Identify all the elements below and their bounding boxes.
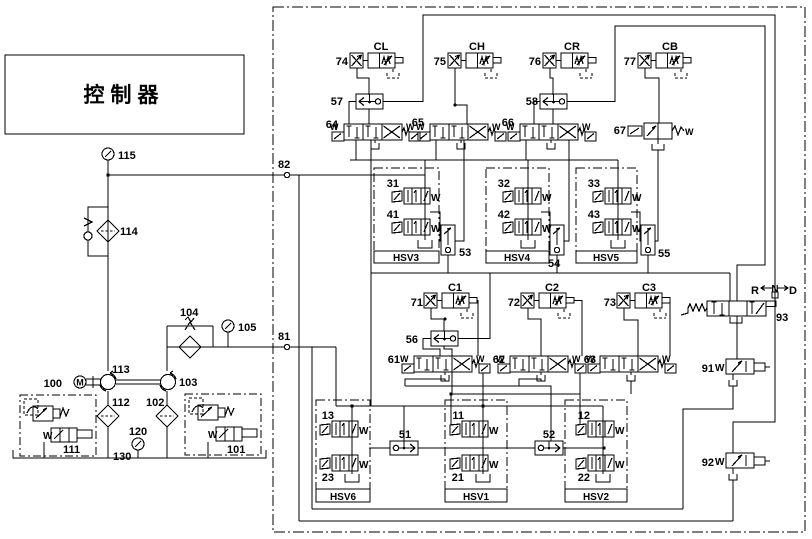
solenoid pilot valve 75, coil CH: [434, 41, 501, 78]
drop valve66 to check 54: [564, 140, 569, 241]
svg-text:31: 31: [387, 178, 399, 190]
riser valve61 cell3 to rail394: [451, 372, 453, 394]
svg-text:D: D: [789, 285, 797, 297]
svg-text:控制器: 控制器: [84, 83, 165, 107]
solenoid valve 13: [320, 410, 369, 437]
node 81: [278, 331, 290, 350]
svg-text:71: 71: [411, 297, 423, 309]
HSV2 internal wire and tank: [596, 406, 610, 482]
svg-text:63: 63: [584, 354, 596, 366]
pump 103: [160, 371, 197, 391]
rail y=386: [405, 386, 551, 441]
R-N-D selector labels: [751, 284, 797, 301]
shaft motor-pump: [86, 376, 101, 388]
svg-text:54: 54: [548, 258, 561, 270]
pilot return riser x=312: [311, 347, 313, 509]
svg-text:11: 11: [452, 410, 464, 422]
svg-text:103: 103: [179, 377, 197, 389]
svg-text:52: 52: [543, 429, 555, 441]
wire 71 output to valve 61: [477, 301, 478, 357]
gauge 105: [222, 320, 256, 347]
wire 93 to valve 91: [736, 316, 738, 359]
directional valve 62: [493, 354, 586, 381]
svg-text:104: 104: [180, 307, 199, 319]
svg-text:32: 32: [498, 178, 510, 190]
solenoid valve 21: [450, 455, 499, 484]
filter 112: [97, 397, 130, 427]
solenoid valve 31: [387, 178, 441, 204]
wire pump103 output up: [166, 347, 168, 371]
svg-text:12: 12: [578, 410, 590, 422]
wire pump103 to filter102 to tank: [166, 391, 168, 458]
svg-text:91: 91: [702, 363, 714, 375]
solenoid valve 32: [498, 178, 552, 204]
motor 100: [44, 376, 86, 390]
svg-text:120: 120: [129, 426, 147, 438]
pilot return rail y=509: [312, 508, 683, 510]
check valve 55: [641, 225, 670, 260]
svg-text:HSV1: HSV1: [463, 492, 490, 503]
solenoid pilot valve 76, coil CR: [529, 41, 596, 78]
svg-text:65: 65: [412, 117, 424, 129]
controller box 控制器: [5, 55, 244, 134]
HSV5 box: [576, 168, 637, 264]
drop rail394 to valve 11: [450, 394, 452, 425]
wire 73 output to valve 63: [669, 301, 671, 357]
directional valve 66: [502, 117, 596, 149]
check valve 54: [548, 225, 564, 270]
risers valve64/65/66 to rail160: [356, 140, 526, 160]
svg-text:HSV3: HSV3: [393, 253, 420, 264]
gauge 115: [102, 148, 136, 162]
svg-text:53: 53: [459, 247, 471, 259]
shuttle valve 58: [526, 94, 567, 109]
wire 58 output rail to valve 93: [567, 26, 765, 301]
tank risers 61 62 63: [405, 379, 631, 394]
svg-text:115: 115: [118, 150, 136, 162]
pilot collector rail y=273: [371, 272, 730, 274]
wire: gauge 115 down to pump 113: [107, 160, 109, 371]
svg-text:67: 67: [614, 125, 626, 137]
solenoid valve 43: [588, 209, 642, 235]
wire 76 pilot to shuttle 58: [550, 68, 553, 95]
solenoid valve 41: [387, 209, 441, 235]
svg-text:CL: CL: [374, 41, 389, 53]
wire check53 bottom to rail272: [447, 255, 449, 273]
svg-text:R: R: [751, 285, 759, 297]
drop rail394 to valve 12: [579, 394, 581, 425]
solenoid valve 42: [498, 209, 552, 235]
shuttle valve 57: [331, 94, 383, 109]
wire shuttle 51 to shuttle 52: [418, 447, 535, 449]
wire 92 bottom to tank rail: [732, 480, 734, 521]
A/B rail under valves y=160: [350, 159, 618, 161]
svg-text:CB: CB: [662, 41, 678, 53]
valve 93: [681, 301, 788, 324]
rail y=394: [451, 393, 580, 395]
outer system boundary (dash-dot): [273, 7, 805, 532]
long drop valve64 to rail406: [370, 140, 372, 406]
shaft pump113-pump103: [116, 380, 160, 384]
svg-text:114: 114: [120, 226, 139, 238]
solenoid valve 23: [320, 455, 369, 484]
svg-text:62: 62: [493, 354, 505, 366]
svg-text:22: 22: [578, 472, 590, 484]
svg-text:HSV4: HSV4: [504, 253, 531, 264]
svg-text:41: 41: [387, 209, 399, 221]
svg-text:C3: C3: [642, 282, 656, 294]
wire 56 left port to valve 61: [423, 339, 440, 357]
svg-text:23: 23: [322, 472, 334, 484]
wire check55 bottom through rail272 to valve73: [647, 255, 649, 273]
wire 91 to return rail: [683, 386, 733, 509]
wire valve 67 to check 55: [655, 150, 658, 241]
solenoid pilot valve 74, coil CL: [336, 41, 403, 78]
valve 92: [702, 453, 770, 480]
svg-text:112: 112: [112, 397, 130, 409]
HSV3 internal supply wire and tank: [418, 175, 432, 248]
wire: P-rail y=175 from pump line to HSV3: [108, 174, 425, 176]
solenoid pilot valve 73, coil C3: [604, 282, 670, 318]
svg-text:74: 74: [336, 56, 349, 68]
svg-text:HSV2: HSV2: [583, 492, 610, 503]
valve 91: [702, 359, 770, 386]
wire 57 left leg to valve 64: [349, 102, 356, 125]
HSV2 box: [565, 400, 627, 503]
svg-text:43: 43: [588, 209, 600, 221]
wire 56 output up to rail272: [458, 273, 490, 339]
directional valve 61: [388, 354, 490, 381]
drop rail408 to shuttle 51: [403, 406, 405, 441]
shuttle valve 56: [406, 331, 458, 346]
shuttle valve 52: [535, 429, 563, 455]
HSV3 box: [374, 168, 439, 264]
svg-text:113: 113: [112, 364, 130, 376]
bypass check valve 104: [167, 307, 213, 347]
solenoid valve 11: [450, 410, 499, 437]
supply riser x=336 to rail408: [335, 347, 337, 406]
svg-text:21: 21: [452, 472, 464, 484]
filter 104-line diamond: [179, 336, 201, 358]
relief outputs to tank: [44, 442, 208, 458]
HSV1 box: [445, 400, 507, 503]
svg-text:66: 66: [502, 117, 514, 129]
svg-text:C1: C1: [448, 282, 462, 294]
wire check54 bottom to rail272: [556, 255, 558, 273]
left return riser x=299: [298, 175, 300, 521]
wire 57 bottom to valve 64: [368, 109, 370, 124]
wire 77 pilot to valve 67: [645, 68, 659, 123]
svg-text:75: 75: [434, 56, 446, 68]
svg-text:33: 33: [588, 178, 600, 190]
svg-text:92: 92: [702, 457, 714, 469]
HSV6 box: [316, 400, 370, 503]
drop rail273 into valve 93: [729, 273, 731, 301]
filter 102: [146, 397, 178, 427]
wire 72 output to valve 62: [574, 301, 582, 357]
directional valve 64: [326, 119, 420, 149]
pilot rail y=347: [167, 346, 336, 348]
drop valve65 to check 53: [455, 140, 464, 241]
svg-text:55: 55: [658, 248, 670, 260]
wire pump113 to filter112 to tank: [107, 391, 109, 458]
wire 56 bottom port to valve 61: [444, 346, 452, 356]
HSV4 box: [486, 168, 549, 264]
svg-text:CH: CH: [469, 41, 485, 53]
wire 71 pilot to shuttle 56: [431, 308, 444, 331]
wire 58 left leg to valve 66: [534, 102, 540, 125]
solenoid pilot valve 72, coil C2: [508, 282, 574, 318]
HSV5 internal supply wire and tank: [611, 188, 625, 248]
solenoid pilot valve 77, coil CB: [624, 41, 691, 78]
solenoid valve 22: [576, 455, 625, 484]
svg-text:57: 57: [331, 96, 343, 108]
svg-text:81: 81: [278, 331, 290, 343]
valve 67: [614, 123, 694, 150]
wire 74 pilot to shuttle 57: [357, 68, 369, 95]
svg-text:64: 64: [326, 119, 339, 131]
wire 72 pilot to valve 62: [528, 308, 541, 356]
wire HSV6 to shuttle 51: [369, 447, 390, 449]
shuttle valve 51: [390, 429, 418, 455]
wire 73 pilot to valve 63: [624, 308, 638, 356]
svg-text:C2: C2: [545, 282, 559, 294]
relief valve 101: [185, 394, 261, 456]
supply rail y=408: [336, 405, 603, 407]
svg-text:56: 56: [406, 334, 418, 346]
node 82: [278, 159, 290, 178]
accumulator filter 114: [97, 220, 139, 242]
bypass loop with check valve at 114: [84, 207, 108, 256]
svg-text:102: 102: [146, 397, 164, 409]
solenoid pilot valve 71, coil C1: [411, 282, 477, 318]
solenoid valve 33: [588, 178, 642, 204]
svg-text:51: 51: [399, 429, 411, 441]
svg-text:76: 76: [529, 56, 541, 68]
wire check55 top to valve43: [631, 212, 641, 241]
svg-text:82: 82: [278, 159, 290, 171]
svg-text:42: 42: [498, 209, 510, 221]
svg-text:CR: CR: [564, 41, 580, 53]
svg-text:W: W: [685, 127, 694, 137]
svg-text:130: 130: [113, 451, 131, 463]
pump 113: [100, 364, 130, 391]
svg-text:93: 93: [776, 312, 788, 324]
HSV6 internal wire and tank: [345, 406, 359, 482]
tank: [13, 450, 266, 458]
check valve 53: [441, 225, 471, 259]
svg-text:M: M: [76, 378, 84, 388]
wire check54 top to valve42: [541, 212, 550, 241]
svg-text:77: 77: [624, 56, 636, 68]
svg-text:111: 111: [63, 444, 80, 456]
HSV4 internal supply wire and tank: [521, 188, 535, 248]
wire 57 output to top rail to valve 92: [383, 15, 775, 453]
HSV1 internal wire and tank: [476, 406, 490, 482]
drops rail160 into HSV3/4/5: [425, 160, 618, 188]
solenoid valve 12: [576, 410, 625, 437]
wire check53 top to valve41: [430, 212, 441, 241]
svg-text:73: 73: [604, 297, 616, 309]
directional valve 65: [412, 117, 506, 149]
wire 58 bottom to valve 66: [552, 109, 554, 124]
directional valve 63: [584, 354, 676, 381]
gauge 120: [129, 426, 147, 458]
svg-text:HSV6: HSV6: [330, 492, 357, 503]
svg-text:101: 101: [227, 444, 245, 456]
wire shuttle 52 to HSV2: [563, 447, 603, 449]
svg-text:105: 105: [238, 322, 256, 334]
relief valve 111: [20, 395, 96, 456]
svg-text:HSV5: HSV5: [593, 253, 620, 264]
svg-text:100: 100: [44, 378, 62, 390]
bottom tank rail y=521: [299, 520, 733, 522]
svg-text:13: 13: [322, 410, 334, 422]
wire 75 pilot to valve 65: [455, 68, 467, 124]
svg-text:61: 61: [388, 354, 400, 366]
svg-text:72: 72: [508, 297, 520, 309]
